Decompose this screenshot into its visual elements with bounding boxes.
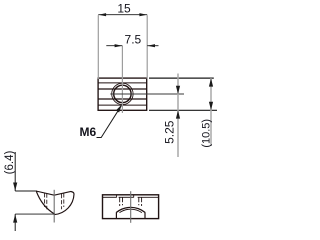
- top view edge line thin lower: [98, 104, 147, 106]
- dim 15 arrow left: [99, 13, 107, 16]
- end view outline: [36, 191, 74, 215]
- top view edge line thick upper: [98, 88, 147, 90]
- vertical centerline of hole: [121, 46, 123, 113]
- front view top tick right: [133, 195, 135, 198]
- svg-text:(10.5): (10.5): [200, 119, 212, 148]
- dim 15 extension line left: [97, 15, 99, 79]
- svg-text:5.25: 5.25: [163, 120, 177, 144]
- dim 6.4 dimension line lower: [14, 214, 16, 231]
- end view thread hidden line inner left: [46, 194, 48, 210]
- dim 7.5 dimension line tail right: [147, 45, 158, 47]
- end view centerline: [53, 190, 55, 223]
- front view top chamfer line right segment: [138, 196, 159, 198]
- front view centerline: [130, 191, 132, 223]
- dim 10.5 dimension line: [210, 78, 212, 146]
- dim 15 arrow right: [139, 13, 147, 16]
- dim 7.5 dimension line tail left: [106, 45, 122, 47]
- dim 5.25 arrow down: [176, 86, 180, 94]
- front view thread hidden line outer left: [119, 197, 121, 206]
- dim 6.4 arrow up: [13, 214, 17, 222]
- front view arch leg right: [144, 212, 146, 218]
- svg-text:7.5: 7.5: [125, 33, 142, 47]
- dim 10.5 arrow down: [209, 102, 213, 110]
- front view outline: [103, 195, 159, 219]
- front view top chamfer line middle segment: [119, 196, 134, 198]
- front view thread hidden line inner right: [138, 197, 140, 205]
- dim 15 dimension line: [98, 14, 147, 16]
- dim 7.5 arrow right pointing left: [147, 44, 155, 47]
- front view relief arch inner: [120, 209, 142, 212]
- front view top chamfer line left segment: [103, 196, 117, 198]
- top view body outline: [98, 78, 147, 110]
- dim 6.4 dimension line upper: [14, 152, 16, 191]
- dim 10.5 arrow up: [209, 78, 213, 86]
- dim 5.25 arrow up: [176, 110, 180, 118]
- front view relief arch outer: [116, 207, 145, 212]
- front view arch leg left: [115, 212, 117, 218]
- front view thread hidden line outer right: [141, 197, 143, 206]
- svg-text:(6.4): (6.4): [4, 151, 16, 175]
- hole axis extension line to right: [110, 93, 184, 95]
- leader arrow: [116, 104, 122, 112]
- end view thread hidden line inner right: [61, 194, 63, 209]
- top edge extension line to right: [149, 77, 214, 79]
- top view edge line thick lower: [98, 98, 147, 100]
- svg-text:M6: M6: [80, 125, 97, 139]
- dim 6.4 extension line top: [15, 190, 36, 192]
- dim 5.25 dimension line: [177, 74, 179, 158]
- front view top tick left: [116, 195, 118, 198]
- svg-text:15: 15: [117, 2, 131, 16]
- end view thread hidden line outer left: [44, 193, 46, 207]
- dim 6.4 arrow down: [13, 183, 17, 191]
- bottom edge extension line to right: [149, 109, 217, 111]
- thread hole outer circle: [112, 83, 133, 104]
- front view thread hidden line inner left: [122, 197, 124, 205]
- top view edge line thin upper: [98, 82, 147, 84]
- dim 7.5 arrow left pointing right: [115, 44, 123, 47]
- dim 6.4 extension line bottom: [15, 213, 54, 215]
- thread hole inner circle: [114, 85, 131, 102]
- end view thread hidden line outer right: [63, 193, 65, 207]
- dim 15 extension line right: [146, 15, 148, 79]
- leader line M6: [97, 106, 122, 138]
